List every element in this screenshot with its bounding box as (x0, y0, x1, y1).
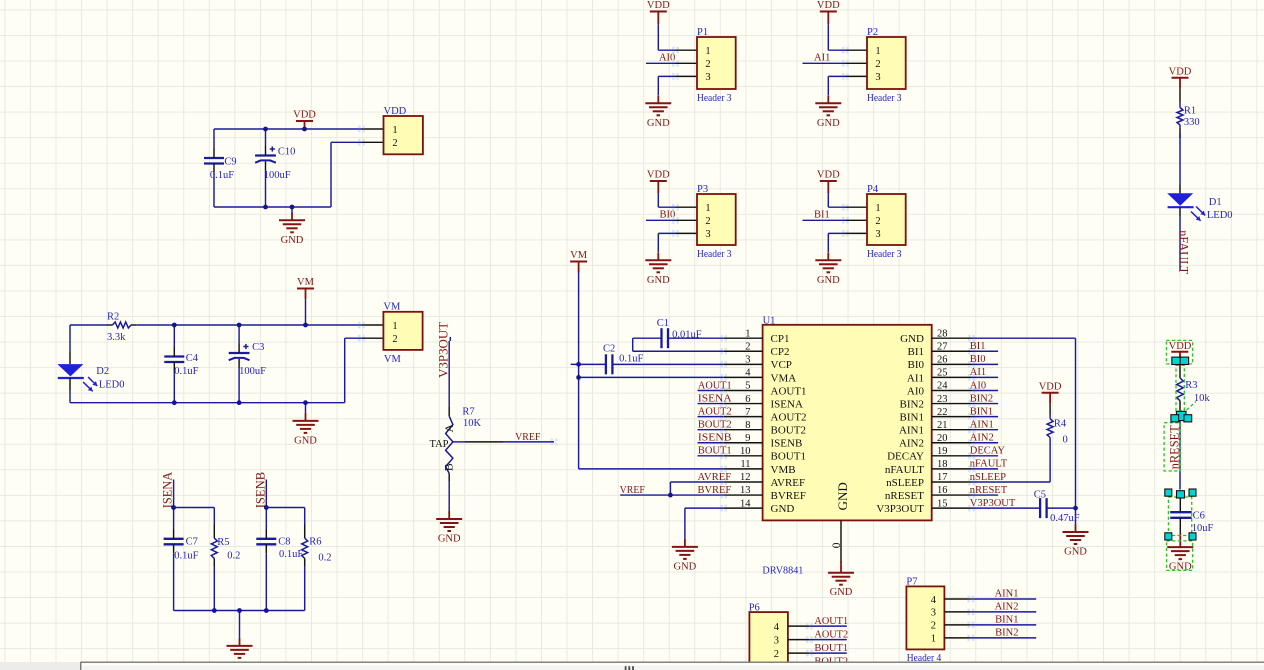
svg-text:10k: 10k (1194, 393, 1211, 404)
svg-text:1: 1 (875, 203, 880, 214)
svg-text:GND: GND (771, 503, 795, 515)
svg-text:CP1: CP1 (771, 333, 790, 345)
svg-text:ISENB: ISENB (771, 438, 803, 450)
svg-text:BIN2: BIN2 (995, 627, 1018, 638)
svg-text:2: 2 (931, 621, 936, 632)
svg-text:BIN2: BIN2 (900, 398, 924, 410)
svg-text:AI0: AI0 (907, 385, 925, 397)
svg-text:P3: P3 (697, 184, 708, 195)
svg-text:R2: R2 (107, 312, 119, 323)
svg-text:BI1: BI1 (908, 346, 925, 358)
svg-text:VM: VM (383, 302, 401, 313)
svg-text:R5: R5 (217, 537, 229, 548)
svg-text:0.1uF: 0.1uF (279, 549, 303, 560)
svg-text:VDD: VDD (293, 110, 316, 121)
svg-text:R3: R3 (1185, 380, 1197, 391)
svg-text:DRV8841: DRV8841 (762, 566, 803, 577)
svg-text:GND: GND (900, 333, 924, 345)
svg-text:AIN2: AIN2 (899, 438, 924, 450)
svg-text:VDD: VDD (1169, 66, 1192, 77)
svg-text:4: 4 (774, 622, 780, 633)
svg-text:VDD: VDD (1039, 381, 1062, 392)
svg-text:nRESET: nRESET (970, 485, 1008, 496)
svg-text:2: 2 (745, 341, 750, 352)
svg-text:nRESET: nRESET (1167, 425, 1181, 469)
svg-text:15: 15 (937, 498, 948, 509)
svg-text:R4: R4 (1054, 419, 1067, 430)
svg-text:LED0: LED0 (99, 379, 125, 390)
svg-text:AIN2: AIN2 (970, 433, 994, 444)
svg-text:3: 3 (745, 355, 750, 366)
svg-text:BOUT1: BOUT1 (771, 451, 806, 463)
svg-text:R7: R7 (462, 407, 474, 418)
svg-text:Header 3: Header 3 (697, 249, 732, 260)
svg-text:nRESET: nRESET (885, 490, 924, 502)
svg-text:AIN1: AIN1 (970, 419, 994, 430)
svg-text:GND: GND (830, 587, 853, 598)
svg-text:C8: C8 (278, 537, 290, 548)
svg-text:C9: C9 (224, 157, 236, 168)
svg-text:VCP: VCP (771, 359, 792, 371)
svg-text:13: 13 (740, 485, 751, 496)
svg-text:B: B (441, 463, 455, 471)
svg-text:C10: C10 (278, 147, 296, 158)
svg-text:0.01uF: 0.01uF (672, 330, 702, 341)
svg-text:V3P3OUT: V3P3OUT (876, 503, 924, 515)
svg-text:22: 22 (937, 407, 948, 418)
svg-text:nSLEEP: nSLEEP (970, 472, 1006, 483)
svg-text:2: 2 (875, 216, 880, 227)
svg-text:10: 10 (740, 446, 751, 457)
svg-text:GND: GND (817, 118, 840, 129)
svg-text:C7: C7 (186, 537, 198, 548)
svg-text:BI0: BI0 (908, 359, 925, 371)
svg-text:3: 3 (705, 72, 710, 83)
svg-text:BI1: BI1 (970, 341, 986, 352)
svg-text:VDD: VDD (384, 106, 407, 117)
svg-text:Header 3: Header 3 (867, 249, 902, 260)
svg-text:6: 6 (745, 394, 750, 405)
svg-text:BIN1: BIN1 (995, 614, 1018, 625)
svg-text:C5: C5 (1034, 489, 1046, 500)
svg-text:0.1uF: 0.1uF (619, 353, 643, 364)
svg-text:2: 2 (392, 138, 397, 149)
svg-text:24: 24 (937, 381, 948, 392)
svg-text:8: 8 (745, 420, 750, 431)
svg-text:100uF: 100uF (264, 170, 291, 181)
svg-text:1: 1 (705, 46, 710, 57)
svg-text:A: A (442, 424, 456, 433)
svg-text:C6: C6 (1193, 511, 1205, 522)
svg-text:GND: GND (817, 275, 840, 286)
svg-text:BIN2: BIN2 (970, 393, 993, 404)
svg-text:19: 19 (937, 446, 948, 457)
svg-text:GND: GND (674, 561, 697, 572)
svg-text:AIN1: AIN1 (899, 425, 924, 437)
svg-text:ISENB: ISENB (253, 472, 267, 509)
svg-text:BVREF: BVREF (698, 485, 732, 496)
svg-text:ISENA: ISENA (161, 472, 175, 509)
svg-text:BI1: BI1 (814, 210, 830, 221)
svg-text:C2: C2 (603, 343, 615, 354)
svg-text:ISENA: ISENA (698, 393, 732, 404)
svg-text:P6: P6 (749, 602, 760, 613)
svg-text:U1: U1 (763, 315, 776, 326)
svg-text:GND: GND (294, 435, 317, 446)
svg-text:0.1uF: 0.1uF (210, 170, 234, 181)
svg-text:BIN1: BIN1 (970, 406, 993, 417)
svg-text:0.1uF: 0.1uF (174, 550, 198, 561)
svg-text:V3P3OUT: V3P3OUT (437, 322, 451, 378)
svg-text:9: 9 (745, 433, 750, 444)
svg-text:ISENA: ISENA (771, 398, 803, 410)
svg-text:0.2: 0.2 (318, 552, 331, 563)
svg-text:P1: P1 (697, 27, 708, 38)
svg-text:P4: P4 (867, 184, 879, 195)
svg-text:BIN1: BIN1 (900, 412, 924, 424)
svg-text:1: 1 (745, 328, 750, 339)
svg-text:R6: R6 (309, 537, 321, 548)
svg-text:VDD: VDD (647, 0, 670, 11)
svg-text:0.47uF: 0.47uF (1050, 513, 1080, 524)
svg-text:VREF: VREF (515, 432, 540, 443)
svg-text:0.1uF: 0.1uF (174, 366, 198, 377)
svg-text:10uF: 10uF (1192, 523, 1214, 534)
svg-text:C3: C3 (252, 342, 264, 353)
svg-text:AVREF: AVREF (698, 472, 732, 483)
svg-text:4: 4 (745, 368, 751, 379)
svg-text:AI1: AI1 (970, 367, 986, 378)
svg-text:3.3k: 3.3k (107, 332, 126, 343)
svg-text:2: 2 (392, 334, 397, 345)
svg-text:0: 0 (1063, 435, 1068, 446)
svg-text:AOUT1: AOUT1 (814, 616, 848, 627)
svg-text:27: 27 (937, 341, 948, 352)
svg-text:GND: GND (835, 482, 850, 510)
svg-text:28: 28 (937, 328, 948, 339)
svg-text:BOUT2: BOUT2 (698, 419, 732, 430)
svg-text:VMA: VMA (771, 372, 797, 384)
svg-text:7: 7 (745, 407, 750, 418)
svg-text:AIN2: AIN2 (995, 601, 1019, 612)
svg-text:BVREF: BVREF (771, 490, 806, 502)
svg-text:18: 18 (937, 459, 948, 470)
svg-text:1: 1 (392, 125, 397, 136)
svg-text:ISENB: ISENB (698, 433, 732, 444)
svg-text:GND: GND (647, 118, 670, 129)
svg-text:P2: P2 (867, 27, 878, 38)
svg-text:0.2: 0.2 (227, 551, 240, 562)
svg-text:AI1: AI1 (814, 53, 830, 64)
svg-text:23: 23 (937, 394, 948, 405)
svg-text:VMB: VMB (771, 464, 796, 476)
svg-text:P7: P7 (906, 577, 917, 588)
svg-text:VDD: VDD (1169, 341, 1192, 352)
svg-text:25: 25 (937, 368, 948, 379)
svg-text:AOUT2: AOUT2 (771, 412, 807, 424)
svg-text:3: 3 (774, 635, 779, 646)
svg-text:nFAULT: nFAULT (1177, 230, 1191, 274)
svg-text:1: 1 (705, 203, 710, 214)
svg-text:3: 3 (931, 608, 936, 619)
svg-text:VDD: VDD (647, 170, 670, 181)
svg-text:BI0: BI0 (970, 354, 986, 365)
svg-text:20: 20 (937, 433, 948, 444)
svg-text:3: 3 (875, 229, 880, 240)
svg-text:AIN1: AIN1 (995, 589, 1019, 600)
svg-text:AOUT1: AOUT1 (771, 385, 807, 397)
svg-text:10K: 10K (463, 418, 482, 429)
svg-text:nSLEEP: nSLEEP (886, 477, 924, 489)
svg-text:16: 16 (937, 485, 948, 496)
svg-text:BOUT1: BOUT1 (698, 446, 732, 457)
svg-text:BOUT2: BOUT2 (771, 425, 806, 437)
svg-text:DECAY: DECAY (970, 446, 1006, 457)
svg-text:11: 11 (740, 459, 750, 470)
svg-text:14: 14 (740, 498, 751, 509)
svg-text:Header 3: Header 3 (697, 93, 732, 104)
svg-text:1: 1 (931, 634, 936, 645)
svg-text:DECAY: DECAY (887, 451, 924, 463)
svg-text:21: 21 (937, 420, 948, 431)
svg-text:VM: VM (570, 250, 588, 261)
svg-text:3: 3 (875, 72, 880, 83)
svg-text:BOUT1: BOUT1 (814, 643, 848, 654)
svg-text:GND: GND (647, 275, 670, 286)
svg-text:26: 26 (937, 355, 948, 366)
svg-text:1: 1 (875, 46, 880, 57)
svg-text:Header 3: Header 3 (867, 93, 902, 104)
svg-text:CP2: CP2 (771, 346, 790, 358)
svg-text:2: 2 (875, 59, 880, 70)
svg-text:VDD: VDD (817, 0, 840, 11)
svg-text:17: 17 (937, 472, 948, 483)
svg-text:C1: C1 (657, 318, 669, 329)
svg-text:D2: D2 (96, 366, 109, 377)
svg-text:5: 5 (745, 381, 750, 392)
svg-text:3: 3 (705, 229, 710, 240)
svg-text:330: 330 (1184, 117, 1200, 128)
svg-text:AOUT2: AOUT2 (698, 406, 732, 417)
svg-text:GND: GND (438, 534, 461, 545)
svg-text:GND: GND (1064, 547, 1087, 558)
svg-text:12: 12 (740, 472, 751, 483)
svg-text:100uF: 100uF (239, 366, 266, 377)
svg-text:4: 4 (931, 595, 937, 606)
svg-text:2: 2 (774, 649, 779, 660)
svg-text:AVREF: AVREF (771, 477, 806, 489)
svg-text:TAP: TAP (430, 439, 449, 450)
svg-text:D1: D1 (1209, 197, 1222, 208)
svg-text:AI1: AI1 (907, 372, 924, 384)
svg-text:VDD: VDD (817, 170, 840, 181)
svg-text:AOUT1: AOUT1 (698, 380, 732, 391)
svg-text:0: 0 (831, 542, 843, 548)
svg-text:AI0: AI0 (970, 380, 986, 391)
svg-text:LED0: LED0 (1207, 210, 1233, 221)
svg-text:VM: VM (297, 277, 315, 288)
svg-text:V3P3OUT: V3P3OUT (970, 498, 1016, 509)
svg-text:C4: C4 (186, 353, 199, 364)
svg-text:VM: VM (384, 354, 402, 365)
svg-text:1: 1 (392, 321, 397, 332)
svg-text:VREF: VREF (620, 485, 645, 496)
svg-text:GND: GND (281, 235, 304, 246)
svg-text:2: 2 (705, 216, 710, 227)
svg-text:2: 2 (705, 59, 710, 70)
svg-text:nFAULT: nFAULT (885, 464, 924, 476)
svg-text:AOUT2: AOUT2 (814, 629, 848, 640)
svg-text:nFAULT: nFAULT (970, 459, 1008, 470)
svg-text:R1: R1 (1184, 106, 1196, 117)
